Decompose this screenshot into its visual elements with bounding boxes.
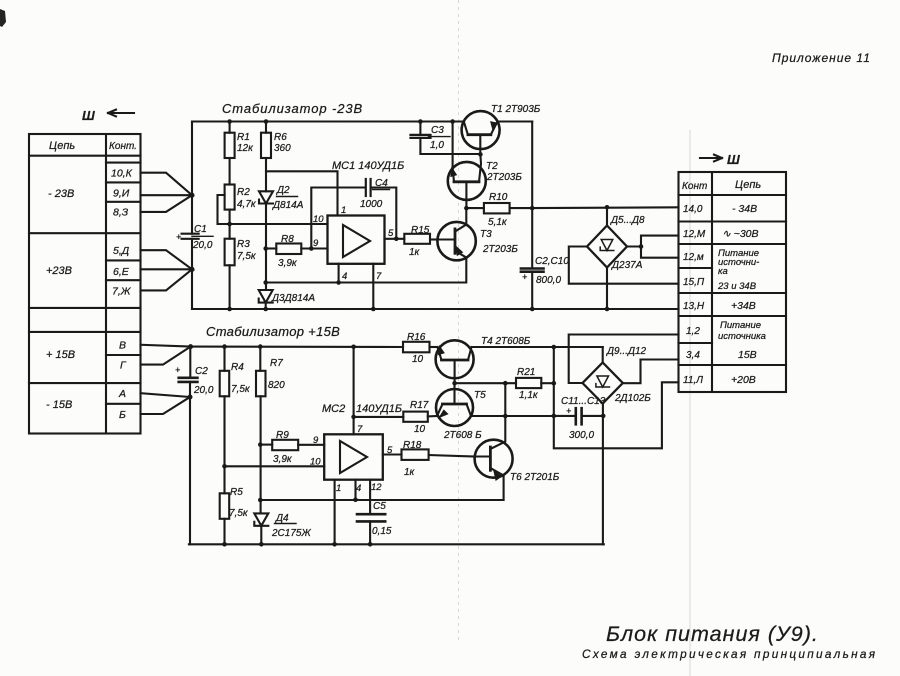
svg-text:2Д102Б: 2Д102Б — [614, 393, 651, 404]
svg-text:5: 5 — [387, 445, 393, 456]
svg-text:- 23В: - 23В — [48, 188, 74, 200]
svg-text:Приложение 11: Приложение 11 — [772, 51, 871, 65]
svg-text:11,Л: 11,Л — [683, 375, 703, 386]
svg-text:7,5к: 7,5к — [237, 251, 257, 262]
svg-text:2Т203Б: 2Т203Б — [486, 172, 522, 183]
svg-text:Д237А: Д237А — [611, 260, 643, 271]
svg-text:23 и 34В: 23 и 34В — [717, 281, 757, 292]
svg-text:3,4: 3,4 — [686, 350, 700, 361]
svg-text:4: 4 — [356, 483, 361, 494]
svg-text:2С175Ж: 2С175Ж — [271, 528, 311, 539]
svg-text:1к: 1к — [409, 247, 421, 258]
svg-text:1к: 1к — [404, 467, 416, 478]
svg-text:Т4 2Т608Б: Т4 2Т608Б — [481, 336, 531, 347]
svg-text:5,Д: 5,Д — [113, 245, 130, 257]
svg-text:360: 360 — [274, 143, 291, 154]
svg-text:Д2: Д2 — [276, 185, 290, 196]
svg-text:10: 10 — [412, 354, 424, 365]
svg-text:Стабилизатор +15В: Стабилизатор +15В — [206, 324, 340, 339]
svg-text:R21: R21 — [517, 367, 535, 378]
svg-text:Конт.: Конт. — [109, 141, 137, 152]
svg-text:15В: 15В — [738, 349, 757, 361]
svg-text:Д3Д814А: Д3Д814А — [271, 293, 315, 304]
svg-text:R5: R5 — [230, 487, 243, 498]
svg-text:4: 4 — [342, 271, 347, 282]
svg-text:0,15: 0,15 — [372, 526, 392, 537]
svg-text:С5: С5 — [373, 501, 386, 512]
svg-text:+: + — [566, 406, 571, 416]
svg-text:9: 9 — [313, 238, 319, 249]
svg-text:Схема электрическая принципи: Схема электрическая принципиальная — [582, 647, 877, 661]
svg-text:1: 1 — [341, 205, 346, 216]
svg-text:12,М: 12,М — [683, 229, 706, 240]
svg-text:6,Е: 6,Е — [113, 266, 130, 278]
svg-text:МС1 140УД1Б: МС1 140УД1Б — [332, 160, 404, 172]
svg-text:Блок питания (У9).: Блок питания (У9). — [606, 622, 819, 646]
svg-text:20,0: 20,0 — [193, 385, 214, 396]
svg-text:1: 1 — [336, 483, 341, 494]
svg-text:Д4: Д4 — [275, 513, 289, 524]
svg-text:4,7к: 4,7к — [237, 199, 257, 210]
svg-text:С4: С4 — [375, 178, 388, 189]
svg-text:R6: R6 — [274, 132, 287, 143]
svg-text:- 15В: - 15В — [46, 399, 72, 411]
svg-text:С2: С2 — [195, 366, 208, 377]
svg-text:7,5к: 7,5к — [229, 508, 249, 519]
svg-text:∿ ~30В: ∿ ~30В — [722, 228, 759, 240]
svg-text:15,П: 15,П — [683, 277, 705, 288]
svg-text:Т6 2Т201Б: Т6 2Т201Б — [510, 472, 560, 483]
svg-text:+ 15В: + 15В — [46, 349, 75, 361]
svg-text:R17: R17 — [410, 400, 429, 411]
svg-text:10: 10 — [310, 457, 321, 468]
svg-text:R10: R10 — [489, 192, 508, 203]
svg-text:Питание: Питание — [720, 320, 761, 331]
svg-text:МС2: МС2 — [322, 403, 345, 415]
svg-text:Стабилизатор -23В: Стабилизатор -23В — [222, 101, 363, 116]
svg-text:Цепь: Цепь — [49, 140, 75, 152]
svg-text:12к: 12к — [237, 143, 254, 154]
svg-text:140УД1Б: 140УД1Б — [356, 403, 402, 415]
svg-text:+: + — [522, 272, 527, 282]
svg-text:2Т608 Б: 2Т608 Б — [443, 430, 482, 441]
svg-text:R16: R16 — [407, 332, 426, 343]
svg-text:820: 820 — [268, 380, 285, 391]
svg-text:7: 7 — [376, 271, 382, 282]
svg-text:Б: Б — [119, 409, 126, 421]
svg-text:Т3: Т3 — [480, 229, 492, 240]
svg-text:300,0: 300,0 — [569, 430, 594, 441]
svg-text:R2: R2 — [237, 187, 250, 198]
svg-text:источника: источника — [718, 331, 766, 342]
svg-text:7: 7 — [357, 424, 363, 435]
svg-text:Т2: Т2 — [486, 161, 498, 172]
svg-text:1,0: 1,0 — [430, 140, 444, 151]
svg-text:Ш: Ш — [727, 152, 740, 167]
svg-text:10,К: 10,К — [111, 168, 133, 180]
svg-text:+: + — [176, 232, 181, 242]
svg-text:+23В: +23В — [46, 265, 72, 277]
svg-text:- 34В: - 34В — [732, 203, 757, 215]
svg-text:Д5...Д8: Д5...Д8 — [610, 215, 645, 226]
svg-text:R15: R15 — [411, 225, 430, 236]
svg-text:Т1 2Т903Б: Т1 2Т903Б — [491, 104, 541, 115]
svg-text:Цепь: Цепь — [735, 179, 761, 191]
svg-text:5,1к: 5,1к — [488, 217, 508, 228]
svg-text:R7: R7 — [270, 358, 283, 369]
svg-text:Д814А: Д814А — [272, 200, 304, 211]
svg-text:С2,С10: С2,С10 — [535, 256, 569, 267]
svg-text:9: 9 — [313, 435, 319, 446]
svg-text:С1: С1 — [194, 224, 207, 235]
svg-text:10: 10 — [313, 214, 324, 225]
svg-text:А: А — [118, 388, 126, 400]
svg-text:9,И: 9,И — [113, 188, 130, 200]
svg-text:Конт: Конт — [682, 181, 707, 192]
svg-text:+20В: +20В — [731, 374, 756, 386]
svg-text:1000: 1000 — [360, 199, 383, 210]
svg-text:12,м: 12,м — [683, 252, 704, 263]
svg-text:С3: С3 — [431, 125, 444, 136]
svg-text:+: + — [175, 365, 180, 375]
svg-text:ка: ка — [718, 266, 728, 277]
svg-text:7,Ж: 7,Ж — [112, 286, 132, 298]
svg-text:14,0: 14,0 — [683, 204, 703, 215]
svg-text:R3: R3 — [237, 239, 250, 250]
svg-text:1,1к: 1,1к — [519, 390, 539, 401]
svg-text:+34В: +34В — [731, 300, 756, 312]
svg-text:Т5: Т5 — [474, 390, 486, 401]
svg-text:Д9...Д12: Д9...Д12 — [606, 346, 647, 357]
svg-text:7,5к: 7,5к — [231, 384, 251, 395]
svg-text:Ш: Ш — [82, 108, 95, 123]
svg-text:R18: R18 — [403, 440, 422, 451]
svg-text:R8: R8 — [281, 234, 294, 245]
svg-text:3,9к: 3,9к — [273, 454, 293, 465]
svg-text:8,З: 8,З — [113, 207, 129, 219]
svg-text:1,2: 1,2 — [686, 326, 700, 337]
svg-text:3,9к: 3,9к — [278, 258, 298, 269]
svg-text:R4: R4 — [231, 362, 244, 373]
svg-text:12: 12 — [371, 482, 382, 493]
svg-text:20,0: 20,0 — [192, 240, 213, 251]
svg-text:R1: R1 — [237, 132, 250, 143]
svg-text:13,Н: 13,Н — [683, 301, 705, 312]
svg-text:R9: R9 — [276, 430, 289, 441]
svg-text:5: 5 — [388, 228, 394, 239]
svg-text:10: 10 — [414, 424, 426, 435]
svg-text:В: В — [119, 340, 126, 352]
svg-text:800,0: 800,0 — [536, 275, 561, 286]
svg-text:2Т203Б: 2Т203Б — [482, 244, 518, 255]
